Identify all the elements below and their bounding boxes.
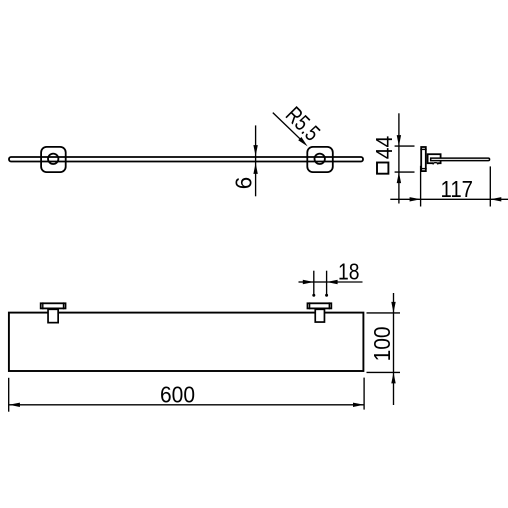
- plan view: left bracket cap right tick: [63, 302, 65, 309]
- plan view: right bracket cap: [308, 303, 332, 308]
- dimension 117: right arrow: [490, 197, 501, 201]
- svg-text:6: 6: [230, 177, 256, 190]
- dimension 6: witness line: [255, 125, 257, 196]
- front view: glass shelf panel: [9, 157, 363, 162]
- svg-text:100: 100: [369, 326, 395, 361]
- dimension 18: middle segment: [314, 281, 327, 283]
- svg-text:600: 600: [160, 382, 195, 408]
- dimension 18: right origin dot: [325, 294, 328, 297]
- plan view: left bracket stem: [48, 309, 58, 322]
- dimension 6: lower arrow: [253, 163, 257, 174]
- side view: glass panel edge: [431, 158, 490, 161]
- plan view: left bracket cap left tick: [42, 302, 44, 309]
- square section symbol: [377, 163, 388, 174]
- front view: right bracket post circle: [315, 154, 325, 164]
- dimension 44: witness line: [398, 113, 400, 203]
- dimension 44: upper arrow: [397, 135, 401, 146]
- dimension 100: bottom extension line: [367, 371, 401, 373]
- dimension 100: upper arrow: [391, 302, 395, 313]
- dimension 18: left tail line: [299, 281, 314, 283]
- dimension 117: right extension line: [489, 166, 491, 206]
- plan view: right bracket stem: [315, 309, 324, 322]
- dimension 100: top extension line: [367, 312, 401, 314]
- side view: wall plate: [421, 147, 426, 171]
- svg-text:117: 117: [441, 176, 474, 202]
- plan view: left bracket cap: [41, 303, 66, 308]
- side view: wall plate bottom lip line: [420, 168, 426, 170]
- dimension 117: left extension line: [420, 166, 422, 207]
- front view: left bracket post circle: [48, 154, 58, 164]
- dimension 600: right arrow: [353, 403, 364, 407]
- side view: wall plate top lip line: [420, 148, 426, 150]
- side view: set screw notch: [433, 162, 437, 165]
- plan view: shelf outline: [9, 313, 364, 371]
- dimension 18: left extension line: [313, 271, 315, 296]
- dimension 18: left arrow: [303, 280, 314, 284]
- front view: left wall bracket: [41, 147, 66, 172]
- dimension 600: left arrow: [9, 403, 20, 407]
- plan view: right bracket cap left tick: [309, 302, 311, 309]
- leader line for R5.5: [273, 113, 301, 140]
- dimension 18: right tail line: [327, 281, 363, 283]
- svg-text:44: 44: [371, 136, 397, 160]
- dimension 18: left origin dot: [312, 294, 315, 297]
- plan view: right bracket cap right tick: [328, 302, 330, 309]
- dimension 18: right arrow: [327, 280, 338, 284]
- dimension 44: top extension line: [395, 145, 415, 147]
- svg-text:18: 18: [338, 258, 360, 284]
- front view: right wall bracket: [307, 147, 333, 172]
- dimension 100: lower arrow: [391, 372, 395, 383]
- leader arrowhead at bracket corner: [298, 137, 307, 146]
- dimension 44: bottom extension line: [395, 171, 415, 173]
- dimension 117: left arrow: [410, 197, 421, 201]
- side view: shelf clamp body: [428, 154, 441, 163]
- dimension 18: right extension line: [326, 271, 328, 296]
- dimension 600: right extension line: [363, 378, 365, 410]
- dimension 100: witness line: [393, 293, 395, 405]
- dimension 117: dimension line: [390, 198, 508, 200]
- dimension 600: dimension line: [9, 404, 364, 406]
- dimension 600: left extension line: [8, 378, 10, 412]
- dimension 44: lower arrow: [397, 172, 401, 183]
- dimension 6: upper arrow: [253, 145, 257, 156]
